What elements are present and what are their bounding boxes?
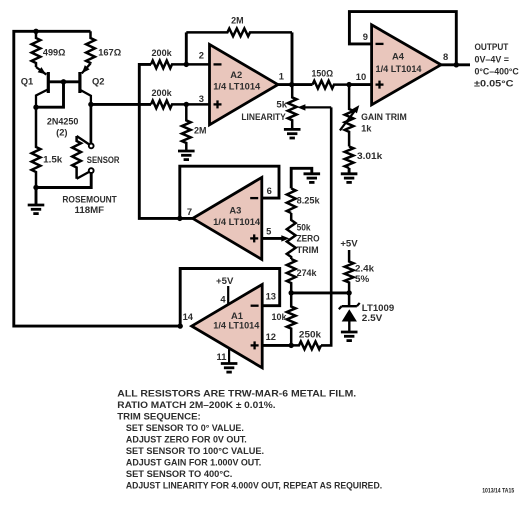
sensor terminal circle top bbox=[89, 144, 94, 149]
svg-text:ADJUST ZERO FOR 0V OUT.: ADJUST ZERO FOR 0V OUT. bbox=[126, 433, 247, 444]
wire linearity wiper to 250k bbox=[321, 107, 331, 345]
svg-text:1/4 LT1014: 1/4 LT1014 bbox=[213, 80, 261, 91]
svg-text:TRIM SEQUENCE:: TRIM SEQUENCE: bbox=[117, 410, 200, 421]
svg-text:10k: 10k bbox=[272, 311, 288, 322]
ground left bbox=[35, 188, 38, 206]
node Q1 collector bbox=[33, 105, 38, 110]
resistor 2.4k 5% bbox=[345, 250, 354, 306]
svg-text:1/4 LT1014: 1/4 LT1014 bbox=[213, 216, 261, 227]
svg-text:1013/14 TA15: 1013/14 TA15 bbox=[482, 488, 515, 494]
svg-text:ALL RESISTORS ARE TRW-MAR-6 ME: ALL RESISTORS ARE TRW-MAR-6 METAL FILM. bbox=[117, 387, 356, 398]
node base junction bbox=[61, 79, 66, 84]
svg-text:274k: 274k bbox=[297, 267, 318, 278]
svg-text:6: 6 bbox=[267, 185, 272, 196]
wire A1 +input pin 12 bbox=[262, 344, 291, 347]
svg-text:13: 13 bbox=[266, 291, 276, 302]
svg-text:0°C–400°C: 0°C–400°C bbox=[475, 66, 520, 77]
svg-text:+5V: +5V bbox=[216, 275, 234, 286]
svg-text:(2): (2) bbox=[56, 127, 67, 138]
zener LT1009 2.5V bbox=[342, 305, 357, 307]
svg-text:OUTPUT: OUTPUT bbox=[475, 41, 509, 52]
ground above 8.25k bbox=[291, 168, 312, 188]
resistor 167Ω bbox=[86, 31, 95, 63]
svg-text:4: 4 bbox=[220, 294, 226, 305]
svg-text:3.01k: 3.01k bbox=[357, 150, 383, 161]
wire A3 +input to zero trim wiper bbox=[262, 237, 284, 240]
op-amp A2 1/4 LT1014 bbox=[210, 44, 278, 124]
svg-text:LINEARITY: LINEARITY bbox=[241, 111, 286, 122]
node A4 pin10 bbox=[346, 82, 351, 87]
svg-text:3: 3 bbox=[199, 93, 204, 104]
potentiometer 5k LINEARITY bbox=[288, 85, 297, 130]
potentiometer 50k ZERO TRIM bbox=[287, 213, 296, 259]
svg-text:1/4 LT1014: 1/4 LT1014 bbox=[376, 63, 423, 74]
svg-text:12: 12 bbox=[266, 331, 276, 342]
svg-text:Q2: Q2 bbox=[92, 75, 105, 86]
wire A4 feedback loop bbox=[349, 12, 456, 65]
svg-text:2.4k: 2.4k bbox=[355, 263, 375, 274]
svg-text:A2: A2 bbox=[230, 69, 242, 80]
wire bridge output to A2 +input (main line) bbox=[91, 103, 151, 106]
resistor 1.5k bbox=[32, 107, 41, 187]
resistor 499Ω bbox=[32, 31, 41, 67]
ground below 2M bbox=[178, 150, 195, 153]
node A3 output bbox=[177, 216, 182, 221]
rheostat GAIN TRIM 1k bbox=[345, 85, 354, 147]
svg-text:11: 11 bbox=[217, 351, 227, 362]
svg-text:ZERO: ZERO bbox=[297, 233, 320, 244]
wire base to Q1 collector bbox=[36, 82, 64, 107]
wire Q1-Q2 base tie bbox=[48, 80, 80, 83]
sensor terminal circle bottom bbox=[89, 168, 94, 173]
wire A4 output bbox=[441, 63, 470, 66]
svg-text:14: 14 bbox=[183, 311, 194, 322]
node LT1009 cathode bbox=[346, 290, 351, 295]
svg-text:8: 8 bbox=[443, 51, 448, 62]
resistor 274k bbox=[287, 259, 296, 293]
svg-text:1: 1 bbox=[279, 70, 284, 81]
svg-text:250k: 250k bbox=[299, 328, 322, 339]
node top rail / R 499 junction bbox=[33, 29, 38, 34]
svg-text:TRIM: TRIM bbox=[297, 244, 319, 255]
svg-text:1.5k: 1.5k bbox=[43, 154, 63, 165]
node A1 output bbox=[178, 323, 183, 328]
wire A3 output to upper 200k bbox=[139, 64, 192, 218]
wire Q2 collector to sensor bbox=[90, 104, 93, 143]
wire A1-output rail: far-left vertical and top rail bbox=[14, 31, 180, 326]
node A2 pin2 bbox=[184, 62, 189, 67]
svg-text:2N4250: 2N4250 bbox=[47, 115, 79, 126]
svg-text:SET SENSOR TO 400°C.: SET SENSOR TO 400°C. bbox=[126, 468, 232, 479]
resistor 8.25k bbox=[287, 188, 296, 213]
svg-text:1/4 LT1014: 1/4 LT1014 bbox=[213, 319, 260, 330]
svg-text:118MF: 118MF bbox=[75, 204, 105, 215]
ground below 3.01k bbox=[348, 168, 351, 174]
resistor 150Ω bbox=[313, 81, 350, 89]
ground below LT1009 bbox=[341, 331, 358, 334]
svg-text:±0.05°C: ±0.05°C bbox=[474, 78, 514, 89]
svg-text:GAIN TRIM: GAIN TRIM bbox=[361, 111, 407, 122]
svg-text:SET SENSOR TO 0° VALUE.: SET SENSOR TO 0° VALUE. bbox=[126, 422, 244, 433]
svg-text:9: 9 bbox=[363, 31, 368, 42]
svg-text:+5V: +5V bbox=[340, 238, 358, 249]
sensor ROSEMOUNT 118MF bbox=[77, 136, 90, 145]
op-amp A1 1/4 LT1014 (left pointing) bbox=[192, 284, 263, 367]
wire A2 output bbox=[278, 83, 313, 86]
svg-text:5%: 5% bbox=[355, 273, 370, 284]
node Q2 collector / bridge output bbox=[88, 102, 93, 107]
node A2 output bbox=[289, 82, 294, 87]
svg-text:A3: A3 bbox=[229, 204, 241, 215]
resistor 10k bbox=[287, 293, 296, 346]
svg-text:8.25k: 8.25k bbox=[297, 194, 321, 205]
op-amp A3 1/4 LT1014 (left pointing) bbox=[193, 177, 262, 259]
svg-text:200k: 200k bbox=[152, 47, 173, 58]
node A4 output bbox=[454, 62, 459, 67]
svg-text:5k: 5k bbox=[276, 99, 287, 110]
svg-text:150Ω: 150Ω bbox=[312, 68, 334, 79]
wire A3 feedback loop bbox=[180, 166, 279, 218]
ground below linearity pot bbox=[284, 128, 301, 131]
svg-text:499Ω: 499Ω bbox=[43, 46, 66, 57]
resistor 200k lower bbox=[151, 101, 210, 109]
pin 11 to ground bbox=[228, 348, 230, 364]
svg-text:0V–4V =: 0V–4V = bbox=[475, 54, 510, 65]
node sensor return / ground bbox=[33, 185, 38, 190]
wire A1 feedback loop bbox=[180, 269, 280, 327]
resistor 2M feedback bbox=[185, 32, 188, 64]
svg-text:2M: 2M bbox=[231, 15, 244, 26]
svg-text:5: 5 bbox=[266, 226, 271, 237]
svg-text:200k: 200k bbox=[152, 87, 173, 98]
svg-text:2.5V: 2.5V bbox=[362, 312, 383, 323]
svg-text:167Ω: 167Ω bbox=[98, 47, 121, 58]
svg-text:10: 10 bbox=[356, 71, 366, 82]
svg-text:RATIO MATCH 2M–200K ± 0.01%.: RATIO MATCH 2M–200K ± 0.01%. bbox=[117, 399, 275, 410]
op-amp A4 1/4 LT1014 bbox=[372, 25, 441, 105]
wire 274k node to LT1009 bbox=[291, 291, 349, 294]
svg-text:50k: 50k bbox=[297, 222, 312, 233]
node A2 pin3 bbox=[184, 102, 189, 107]
svg-text:7: 7 bbox=[187, 206, 192, 217]
resistor 250k bbox=[291, 342, 321, 350]
transistor Q1 bbox=[36, 67, 46, 75]
wire sensor return bbox=[36, 173, 91, 187]
transistor Q2 bbox=[82, 64, 91, 74]
node 10k/250k junction bbox=[289, 343, 294, 348]
svg-text:Q1: Q1 bbox=[21, 75, 34, 86]
resistor 3.01k bbox=[345, 147, 354, 169]
wire to A4 +input bbox=[349, 83, 372, 86]
svg-text:A4: A4 bbox=[392, 50, 405, 61]
svg-text:2: 2 bbox=[199, 50, 204, 61]
resistor 200k upper bbox=[151, 61, 210, 69]
svg-text:SET SENSOR TO 100°C VALUE.: SET SENSOR TO 100°C VALUE. bbox=[126, 445, 264, 456]
svg-text:SENSOR: SENSOR bbox=[87, 154, 120, 165]
svg-text:ROSEMOUNT: ROSEMOUNT bbox=[62, 194, 117, 205]
node 274k/10k junction bbox=[289, 290, 294, 295]
svg-text:1k: 1k bbox=[361, 122, 372, 133]
resistor 2M to ground bbox=[182, 104, 191, 151]
svg-text:ADJUST LINEARITY FOR 4.000V OU: ADJUST LINEARITY FOR 4.000V OUT, REPEAT … bbox=[126, 479, 382, 490]
svg-text:2M: 2M bbox=[194, 125, 207, 136]
svg-text:ADJUST GAIN FOR 1.000V OUT.: ADJUST GAIN FOR 1.000V OUT. bbox=[126, 456, 261, 467]
